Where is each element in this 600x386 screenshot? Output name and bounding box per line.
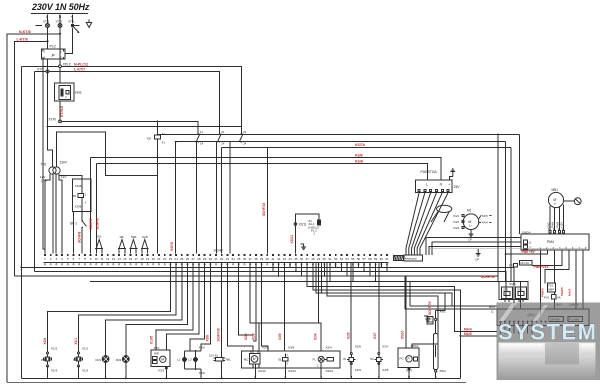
svg-text:X4/1: X4/1 [453,214,460,218]
svg-text:41: 41 [271,257,275,261]
svg-text:X5/10: X5/10 [401,330,405,339]
svg-text:19: 19 [146,257,150,261]
node XT/N [49,117,62,122]
wire rail C right corner down [510,148,512,282]
ground CP near keyboard [301,244,307,250]
svg-text:34: 34 [231,257,235,261]
svg-text:X2/4: X2/4 [314,333,318,340]
svg-text:55: 55 [351,257,355,261]
svg-text:TR1: TR1 [41,163,47,167]
svg-text:51: 51 [328,257,332,261]
svg-text:X3/9: X3/9 [288,346,295,350]
svg-text:SYSTEM: SYSTEM [498,320,597,345]
svg-text:54: 54 [345,257,349,261]
wire bus N y=66.3 [21,66,241,134]
svg-text:FR2: FR2 [116,358,122,362]
svg-text:40: 40 [266,257,270,261]
wire drop t37 to MC [250,263,259,351]
contact 11/14 [197,130,204,145]
motor MB1 [548,188,563,208]
svg-text:11: 11 [491,310,494,314]
svg-text:N-KT/8: N-KT/8 [19,30,31,34]
wire staircase drop d2b [322,263,453,306]
svg-text:48: 48 [311,257,315,261]
wire L below PLC [47,59,49,71]
wire rail C left drop to strip [221,148,223,254]
wire drop t40 [266,148,268,254]
svg-text:46: 46 [300,257,304,261]
svg-text:X2/1: X2/1 [154,346,161,350]
svg-text:SCHF/8: SCHF/8 [95,218,99,230]
svg-text:X1/3: X1/3 [82,369,89,373]
svg-text:XT/1: XT/1 [68,20,75,24]
sensor IS2 [41,347,58,373]
svg-text:SB1: SB1 [131,235,137,239]
svg-text:L: L [426,182,428,186]
wire PC to bus [408,368,410,378]
svg-text:X2/4: X2/4 [326,346,333,350]
capacitor circle MB1 [564,198,582,205]
fan FR2 [116,356,130,363]
wire drop t30 [201,263,210,378]
svg-text:35: 35 [237,257,241,261]
svg-text:MC: MC [244,357,249,361]
ground CP tube [424,316,430,322]
terminal under-rail pins [44,264,387,265]
buzzer SLB [141,235,149,254]
svg-text:7: 7 [579,246,581,250]
svg-text:2: 2 [546,246,548,250]
svg-text:53: 53 [340,257,344,261]
svg-text:39: 39 [260,257,264,261]
svg-text:X3/8: X3/8 [206,335,210,342]
svg-text:PM6 +24V: PM6 +24V [534,265,550,269]
lamp connector 12V 40W [209,353,231,361]
wire PM4 bottom pin drops [540,250,542,315]
svg-text:SCHF: SCHF [214,249,225,253]
wire TR1 to B1 [59,176,82,179]
flame sensor FS1 [548,283,556,292]
svg-text:P: P [407,357,410,361]
wire contact drops to strip [176,142,230,254]
svg-text:SCHF/8: SCHF/8 [77,231,81,243]
wire PFE down to XT/N [59,101,61,121]
wire EL to bus [284,365,286,377]
wire PC feeds [405,276,407,348]
svg-text:SB: SB [120,235,124,239]
contact 21/24 b [240,130,247,145]
svg-text:X4/5: X4/5 [482,214,489,218]
svg-text:PV1: PV1 [544,296,550,300]
svg-text:52: 52 [334,257,338,261]
svg-text:BN: BN [250,350,254,354]
svg-text:X2/10: X2/10 [258,369,266,373]
svg-text:GND/4: GND/4 [522,230,531,234]
wire staircase drop d2 [313,263,497,378]
svg-text:PM3/5: PM3/5 [560,287,564,296]
valve group EVG [499,282,528,303]
wire L-KT/8 to left edge [14,41,47,276]
lamp L1 [177,351,187,369]
svg-text:2: 2 [60,50,62,54]
wire MC bottom jog [253,364,259,368]
svg-text:1: 1 [540,246,542,250]
wire B1 internal [81,179,83,221]
heater tube X6 [427,310,446,374]
svg-text:PM6/5: PM6/5 [541,288,545,297]
terminal XT/3 (N) [56,15,63,28]
svg-text:B1: B1 [73,194,77,198]
svg-text:29: 29 [203,257,207,261]
svg-text:33: 33 [226,257,230,261]
svg-text:X4/4: X4/4 [482,221,489,225]
svg-text:SCHF/7B: SCHF/7B [481,275,495,279]
watermark grey panel [497,303,600,381]
wire staircase drop d1 [307,263,497,332]
node lamp rails [189,350,191,352]
wire bus L y=71.4 [34,71,219,134]
wire drop t24 to IS [79,263,177,378]
wire N vertical [59,28,61,65]
wire drop t23 to IS2 [48,263,171,378]
svg-text:TML: TML [225,358,231,362]
ground symbol [86,20,91,28]
watermark inset block [545,342,579,365]
svg-text:XT/2: XT/2 [43,20,50,24]
svg-text:X1/1: X1/1 [74,338,78,345]
svg-text:SCHF/18: SCHF/18 [262,203,266,216]
connector PUESTOA [416,170,461,193]
watermark diagonal streak mid [533,305,548,321]
svg-text:+: + [448,182,450,186]
svg-text:21: 21 [157,257,161,261]
svg-text:58: 58 [368,257,372,261]
buzzer SO [95,235,103,254]
wire PUESTOA plus pin to CP [449,176,452,180]
node XPLC [59,62,72,67]
wire bus links [255,377,435,378]
wire drop t26 to FR2 [126,263,188,378]
wire bus u3 y=276 [14,275,498,277]
svg-text:8: 8 [585,246,587,250]
svg-text:X3/8: X3/8 [199,371,206,375]
svg-text:37: 37 [249,257,253,261]
svg-text:1: 1 [44,50,46,54]
svg-text:1: 1 [44,257,46,261]
dash left of L terminal [36,25,42,27]
buzzer SB [118,235,126,254]
svg-text:MA/1: MA/1 [489,305,496,309]
svg-text:Keyboard: Keyboard [405,257,417,261]
svg-text:X1/2: X1/2 [51,347,58,351]
svg-text:4: 4 [61,257,63,261]
svg-text:38: 38 [254,257,258,261]
wire rail A drop to EVG [497,134,499,281]
wire rail E y=163.3 [97,163,428,180]
wire drop t28 to M box [166,263,199,350]
svg-text:KD: KD [147,136,152,140]
svg-text:L1: L1 [177,358,181,362]
svg-text:SCHF/7: SCHF/7 [89,218,93,230]
svg-text:M: M [253,357,256,361]
svg-text:KSF/8: KSF/8 [170,242,174,251]
wire MC to bus [254,364,256,377]
svg-text:5: 5 [67,257,69,261]
ground CP near PM4 [475,249,481,262]
svg-text:16: 16 [129,257,133,261]
svg-text:XT/3: XT/3 [56,20,63,24]
svg-text:14: 14 [117,257,121,261]
wire rail A y=134.3 [158,133,520,135]
node L tap [47,40,49,42]
ground CP M1 [468,230,473,242]
svg-text:56: 56 [357,257,361,261]
wire level sensor feed [295,214,319,224]
svg-text:X2/10: X2/10 [326,369,334,373]
wire drop t33 [227,263,252,351]
wire bus u2 y=271.3 [34,271,506,299]
wire drop t45 from X2/11 [294,224,296,254]
svg-text:1: 1 [85,192,87,196]
PM4 top pin squares [548,228,564,233]
svg-text:L-KT/8: L-KT/8 [17,37,28,41]
svg-text:6: 6 [572,246,574,250]
svg-text:N-PLC/2: N-PLC/2 [74,62,88,66]
wire rail D left leg [89,157,91,253]
svg-text:47: 47 [306,257,310,261]
junction dots bottom bus [47,376,437,379]
node X2/11 [294,223,307,227]
svg-text:12V: 12V [40,175,45,179]
svg-text:PM6 +5V: PM6 +5V [522,250,536,254]
svg-text:2: 2 [287,362,289,366]
wire bottom bus return [7,382,466,384]
svg-text:X2/9: X2/9 [252,333,256,340]
svg-text:24: 24 [174,257,178,261]
svg-text:PM4: PM4 [547,240,554,244]
wire KD2 vertical [157,121,159,253]
svg-text:X3/3: X3/3 [355,368,362,372]
svg-text:26V: 26V [454,185,461,189]
svg-text:13: 13 [112,257,116,261]
svg-text:26: 26 [186,257,190,261]
switch SP-1 [70,220,87,228]
lamp FL [313,356,334,367]
svg-text:X1/1: X1/1 [82,347,89,351]
svg-text:X5/2: X5/2 [440,369,447,373]
pump MC [244,350,261,364]
svg-text:2: 2 [65,95,67,99]
svg-text:PLC: PLC [50,45,57,49]
svg-text:12: 12 [529,245,532,249]
svg-text:59: 59 [374,257,378,261]
keyboard [404,255,423,261]
wire TR1 secondaries to strip [45,174,62,254]
wire drop t39 [262,263,268,351]
svg-text:11: 11 [100,257,103,261]
wire FS1 chain [554,292,556,309]
svg-text:50: 50 [323,257,327,261]
wire keyboard harness diagonals [406,193,448,256]
svg-text:EV2: EV2 [518,287,523,291]
wire drop t38 [253,263,256,341]
svg-text:X3/5: X3/5 [199,345,206,349]
svg-text:SV: SV [370,357,374,361]
svg-text:9: 9 [90,257,92,261]
wire B1 left leg [73,211,75,253]
node bus u1 left [20,266,22,268]
svg-text:X2/9: X2/9 [244,333,248,340]
svg-text:60: 60 [380,257,384,261]
svg-text:XPLC: XPLC [63,62,72,66]
ground CP PUESTOA [450,169,455,176]
wire rail E left leg [96,163,98,253]
svg-text:FL: FL [313,357,317,361]
svg-text:X1/8: X1/8 [43,338,47,345]
wire drop t25 to FR1 [106,263,182,378]
svg-text:2: 2 [50,257,52,261]
svg-text:230V 1N 50Hz: 230V 1N 50Hz [31,2,90,12]
wire PM4 left links to keyboard [426,238,521,256]
pump box PC [398,344,419,373]
wire rail A corner to PM4 [519,134,521,234]
watermark highlight right [581,344,595,355]
wire staircase drop d4 [327,263,438,348]
fan ellipse [437,205,452,212]
fan FR1 [96,356,110,363]
wire drop t54 to IS3 [350,263,352,377]
wire drop t27 to WR box [156,263,193,350]
svg-text:KS/7A: KS/7A [355,143,366,147]
svg-text:3: 3 [85,200,87,204]
svg-text:20: 20 [152,257,156,261]
svg-text:P: P [52,53,56,58]
svg-text:EL: EL [279,357,283,361]
sensor IS3 [343,345,361,372]
wire drop t35 [238,263,252,335]
svg-text:L2: L2 [188,358,192,362]
svg-text:PC: PC [400,356,405,360]
wire PLC pin down-left to strip [43,59,45,253]
svg-text:27: 27 [192,257,196,261]
svg-text:1~: 1~ [554,202,558,206]
svg-text:17: 17 [135,257,139,261]
svg-text:57: 57 [363,257,367,261]
svg-text:45: 45 [294,257,298,261]
switch box B1 [72,179,91,212]
wire drop t49 to FL [319,263,322,351]
svg-text:X4/2: X4/2 [453,220,460,224]
svg-text:SCHF/7B: SCHF/7B [428,301,432,315]
motor box WR [151,346,170,373]
svg-text:5: 5 [566,246,568,250]
wire bus u1 y=267.3 [21,267,514,309]
wire FL to bus [320,362,322,377]
terminal XT/1 (PE) [68,15,80,34]
svg-text:61: 61 [385,257,389,261]
svg-text:X3/7: X3/7 [373,332,377,339]
svg-text:X3/13: X3/13 [288,369,296,373]
svg-text:X1/3: X1/3 [51,369,58,373]
svg-text:42: 42 [277,257,281,261]
labels MB1 wire names rotated [547,222,563,228]
wire bus u4 y=281.4 [90,281,521,308]
svg-text:X3/7: X3/7 [382,345,389,349]
wire ellipse stubs [431,212,449,223]
wire tube feeds [435,311,437,378]
svg-text:11: 11 [200,130,203,134]
svg-text:MBP: MBP [548,287,554,291]
watermark highlight left [500,344,544,355]
svg-text:X2/6: X2/6 [347,332,351,339]
svg-text:M1: M1 [467,209,472,213]
svg-text:KS/8-: KS/8- [75,204,83,208]
svg-text:8: 8 [84,257,86,261]
wire link y=323.1 [259,322,319,324]
svg-text:FS1: FS1 [548,283,553,287]
level sensor Z1 LIVELLO [308,219,321,236]
svg-text:15: 15 [123,257,127,261]
wire left vertical x=21.4 [20,66,22,378]
wire L vertical [47,28,49,50]
buzzer SB1 [129,235,137,254]
motor M1 [453,209,488,231]
transformer TR1 [40,161,68,183]
wire drop t58 to SV [378,263,380,377]
svg-text:X2/9: X2/9 [262,346,269,350]
svg-text:230V: 230V [60,161,68,165]
svg-text:4: 4 [559,246,561,250]
svg-text:MA/5: MA/5 [464,332,472,336]
lamp L2 [188,351,198,369]
wire terminal stubs to buses [273,263,387,281]
svg-text:3: 3 [553,246,555,250]
box 24V AC [509,261,532,268]
svg-text:CP: CP [475,258,479,262]
svg-text:30: 30 [209,257,213,261]
svg-text:44: 44 [288,257,292,261]
svg-text:X4/3: X4/3 [453,226,460,230]
svg-text:X3/5: X3/5 [382,368,389,372]
wire staircase drop d3 [316,263,445,311]
svg-text:SCHF/38: SCHF/38 [216,328,220,341]
wire rail B corner to EVG [505,142,507,282]
svg-text:28: 28 [197,257,201,261]
wire left vertical x=34.3 [33,71,35,271]
svg-text:X3/3: X3/3 [158,369,165,373]
svg-text:25: 25 [180,257,184,261]
connector hatch block [393,256,403,261]
svg-text:M: M [161,358,164,362]
wire rail D y=157.4 keyboard supply [90,157,441,179]
heater EL [279,353,289,366]
svg-text:X2/11: X2/11 [299,223,307,227]
svg-text:21: 21 [243,130,247,134]
GK bottom pin drops [501,322,533,334]
terminal strip numbers [44,257,389,261]
wire WR box to bus [165,366,167,378]
valve SV [370,345,389,372]
sensor IS [73,347,89,373]
svg-text:24V AC: 24V AC [520,261,529,265]
svg-text:21: 21 [221,130,225,134]
wire SP-1 to strip [81,228,83,254]
GK bottom pins [500,321,547,323]
svg-text:12V 40: 12V 40 [209,353,218,357]
wire TR1 loop via KD2 [57,132,158,176]
svg-text:32: 32 [220,257,224,261]
wire bus XT/N y=121.4 [61,121,198,134]
